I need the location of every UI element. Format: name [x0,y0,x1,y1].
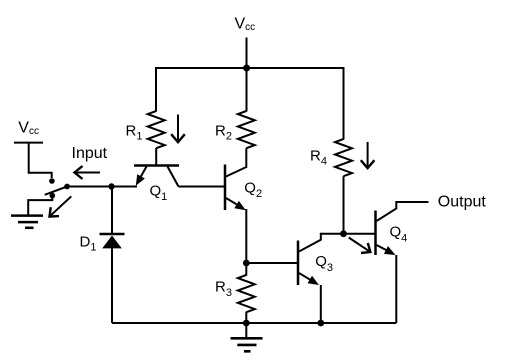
wire input node down to D1 cathode [111,187,113,235]
svg-text:Q2: Q2 [244,179,262,200]
node R3 bottom rail junction [243,320,250,327]
switch SW1 pole [64,184,70,190]
resistor R1 [148,111,165,148]
svg-text:Q1: Q1 [150,182,168,203]
node Q3 emitter rail junction [317,320,324,327]
node R4 / Q3 collector / Q4 base junction [340,230,347,237]
wire rail left drop to R1 [155,67,157,112]
wire rail stub to ground [245,323,247,338]
label R2 [215,123,232,143]
svg-text:Q3: Q3 [315,253,333,274]
resistor R2 [238,111,255,148]
wire Q3 emitter down to rail [320,285,322,323]
wire R4 bottom to junction [343,176,345,234]
label Q1 [150,182,168,203]
label Q3 [315,253,333,274]
transistor Q3 [298,234,344,285]
transistor Q2 (phase splitter) [225,165,246,211]
node Vcc-rail junction [243,65,250,72]
switch SW1 lever [45,187,67,195]
wire R3 bottom to rail [245,312,247,323]
wire Vcc stub down through rail to R2 top [246,38,248,112]
svg-text:Q4: Q4 [390,224,408,245]
ground (bottom) [231,338,263,351]
supply bar for switch Vcc [14,142,43,144]
diode D1 (clamp diode, cathode up) [100,234,125,248]
wire Q1 collector to Q2 base [179,186,225,188]
transistor Q1 (input transistor, base bar with emitter arrow to input node) [134,166,179,187]
wire junction to Q4 base [344,233,375,235]
arrow input current direction (pointing left) [75,166,101,179]
transistor Q4 (output follower) [376,202,429,255]
svg-text:R4: R4 [310,147,327,167]
wire Vcc bar to upper switch contact [29,143,52,178]
wire node down to R3 top [245,263,247,276]
label Output [438,194,487,211]
svg-text:D1: D1 [80,234,97,254]
svg-text:R3: R3 [215,279,232,299]
svg-text:Output: Output [438,194,487,211]
wire R1 bottom to Q1 base bar [155,148,157,166]
svg-text:R2: R2 [215,123,232,143]
label Vcc (switch supply) [18,120,39,138]
switch SW1 lower contact [50,193,56,199]
switch SW1 upper contact [49,178,55,184]
resistor R3 [238,275,255,312]
svg-text:Vcc: Vcc [18,120,39,138]
ground (switch) [11,216,43,228]
label R1 [126,123,143,143]
current arrow beside R1 [171,115,185,143]
svg-text:R1: R1 [126,123,143,143]
node input junction (D1 tap) [108,183,114,189]
wire lower contact to ground [28,196,52,215]
node Q2 emitter / R3 / Q3 base junction [243,260,250,267]
wire bottom ground rail [112,322,396,324]
label R3 [215,279,232,299]
svg-text:Vcc: Vcc [235,16,256,33]
label Q2 [244,179,262,200]
wire rail right drop to R4 [343,67,345,140]
wire Q4 emitter down to rail [395,255,397,323]
arrow Q4 base current [349,238,371,254]
wire R2 bottom to Q2 collector [226,148,246,176]
arrow switch throw action [50,196,72,216]
wire D1 anode down to bottom rail [111,248,113,323]
wire Q2 emitter down to node [245,209,247,263]
label Q4 [390,224,408,245]
resistor R4 [335,139,352,176]
current arrow beside R4 [361,142,375,168]
label Input [72,145,108,162]
wire switch pole to Q1 emitter [67,186,137,188]
wire top Vcc rail [156,67,345,69]
wire node to Q3 base [246,262,297,264]
label Vcc (top supply net) [235,16,256,33]
label D1 [80,234,97,254]
svg-text:Input: Input [72,145,108,162]
label R4 [310,147,327,167]
